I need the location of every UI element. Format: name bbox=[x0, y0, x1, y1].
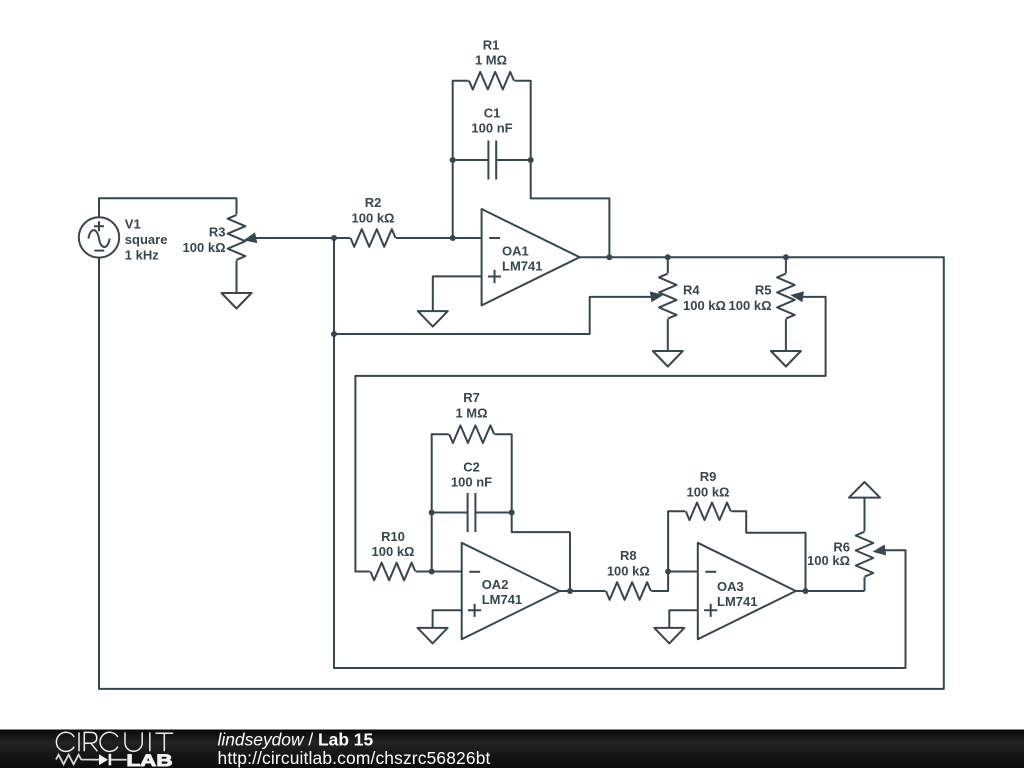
svg-text:LM741: LM741 bbox=[717, 594, 757, 609]
wire R5 top stub bbox=[785, 257, 787, 273]
junction R5 top bbox=[783, 254, 789, 260]
junction OA3 output bbox=[803, 588, 809, 594]
wire R4 top stub bbox=[667, 257, 669, 273]
wire V+ to R6 top bbox=[864, 498, 866, 532]
wire OA3 noninverting input to ground bbox=[669, 610, 698, 628]
svg-text:LM741: LM741 bbox=[482, 592, 522, 607]
ground for R5 bbox=[771, 351, 801, 367]
C2 label bbox=[451, 459, 492, 489]
svg-text:1 MΩ: 1 MΩ bbox=[475, 53, 507, 68]
junction C1 left bbox=[450, 157, 456, 163]
op-amp OA1 bbox=[482, 209, 580, 305]
OA1 label bbox=[502, 244, 542, 274]
CircuitLab logo CIRCUIT bbox=[56, 732, 173, 751]
ground for R4 bbox=[653, 351, 683, 367]
svg-text:R9: R9 bbox=[700, 469, 717, 484]
potentiometer R3 bbox=[228, 215, 258, 260]
wire R3 wiper to node A bbox=[256, 237, 335, 239]
svg-text:R1: R1 bbox=[483, 38, 500, 53]
svg-text:1 MΩ: 1 MΩ bbox=[455, 406, 487, 421]
R8 label bbox=[607, 548, 650, 579]
wire R1 right to feedback right vertical bbox=[515, 81, 610, 258]
wire R8 to OA3 inverting input bbox=[651, 572, 697, 592]
wire R10 to OA2 inverting input bbox=[416, 571, 462, 573]
wire R9 right to OA3 output bbox=[731, 511, 805, 591]
wire OA1 output loop to V1 bbox=[99, 257, 944, 689]
svg-text:OA3: OA3 bbox=[717, 579, 744, 594]
wire feedback left vertical bbox=[453, 81, 469, 238]
capacitor C2 bbox=[432, 493, 512, 532]
svg-text:100 kΩ: 100 kΩ bbox=[372, 544, 415, 559]
R3 label bbox=[183, 225, 226, 256]
svg-text:R7: R7 bbox=[463, 390, 480, 405]
wire feedback2 right drop to OA2 output bbox=[569, 532, 571, 591]
CircuitLab logo resistor-diode symbol bbox=[56, 754, 127, 766]
wire OA2 noninverting input to ground bbox=[433, 610, 462, 628]
svg-text:1 kHz: 1 kHz bbox=[125, 248, 159, 263]
wire R4 bottom to ground bbox=[667, 319, 669, 351]
svg-text:C2: C2 bbox=[463, 459, 480, 474]
svg-text:100 kΩ: 100 kΩ bbox=[183, 240, 226, 255]
R2 label bbox=[352, 195, 395, 226]
junction feedback at output bbox=[606, 254, 612, 260]
resistor R10 bbox=[370, 563, 415, 581]
svg-text:R10: R10 bbox=[381, 529, 405, 544]
svg-text:100 kΩ: 100 kΩ bbox=[607, 564, 650, 579]
potentiometer R5 bbox=[777, 274, 804, 319]
R5 label bbox=[729, 283, 772, 314]
svg-text:OA2: OA2 bbox=[482, 577, 509, 592]
junction C1 right bbox=[528, 157, 534, 163]
ground for OA2 bbox=[418, 628, 448, 644]
svg-text:R3: R3 bbox=[209, 225, 226, 240]
svg-text:100 kΩ: 100 kΩ bbox=[352, 210, 395, 225]
voltage source V1 bbox=[79, 217, 119, 257]
wire node A vertical and bottom bus to R6 wiper bbox=[334, 238, 906, 668]
wire feedback3 left vertical bbox=[668, 511, 685, 571]
wire R5 wiper to R10 bbox=[355, 297, 825, 572]
R7 label bbox=[455, 390, 487, 421]
OA2 label bbox=[482, 577, 522, 607]
wire V1 top to R3 top bbox=[99, 198, 237, 217]
svg-text:LAB: LAB bbox=[127, 751, 173, 768]
potentiometer R6 bbox=[856, 532, 886, 577]
wire node A to R2 bbox=[334, 237, 350, 239]
wire R3 bottom to ground bbox=[236, 260, 238, 293]
ground for OA3 bbox=[654, 628, 684, 644]
junction node A bbox=[331, 235, 337, 241]
wire OA3 output to R6 bbox=[796, 590, 865, 592]
resistor R1 bbox=[469, 72, 514, 90]
wire OA1 noninverting input to ground bbox=[433, 276, 482, 311]
ground for R3 bbox=[222, 293, 252, 309]
svg-text:R4: R4 bbox=[683, 283, 700, 298]
svg-text:R2: R2 bbox=[365, 195, 382, 210]
op-amp OA3 bbox=[698, 543, 796, 639]
junction R2 / feedback bbox=[450, 235, 456, 241]
power supply V+ above R6 bbox=[849, 482, 880, 498]
wire feedback2 left vertical bbox=[432, 434, 449, 571]
junction R10 / feedback2 bbox=[429, 569, 435, 575]
junction node A lower bbox=[331, 331, 337, 337]
R4 label bbox=[683, 283, 726, 314]
V1 label bbox=[125, 217, 168, 263]
R9 label bbox=[687, 469, 730, 500]
R6 label bbox=[807, 540, 850, 568]
capacitor C1 bbox=[453, 141, 531, 180]
junction C2 right bbox=[509, 510, 515, 516]
op-amp OA2 bbox=[462, 543, 560, 639]
junction OA3 inverting bbox=[665, 569, 671, 575]
svg-text:C1: C1 bbox=[484, 106, 501, 121]
wire R5 bottom to ground bbox=[785, 319, 787, 351]
resistor R7 bbox=[449, 425, 494, 443]
svg-text:100 kΩ: 100 kΩ bbox=[807, 553, 850, 568]
wire OA2 output to R8 bbox=[560, 590, 606, 592]
svg-text:R5: R5 bbox=[755, 283, 772, 298]
svg-text:http://circuitlab.com/chszrc56: http://circuitlab.com/chszrc56826bt bbox=[218, 748, 491, 768]
resistor R8 bbox=[606, 582, 651, 600]
R1 label bbox=[475, 38, 507, 68]
resistor R9 bbox=[686, 503, 731, 521]
junction OA2 output bbox=[567, 588, 573, 594]
svg-text:100 kΩ: 100 kΩ bbox=[687, 485, 730, 500]
svg-text:100 kΩ: 100 kΩ bbox=[683, 298, 726, 313]
svg-text:square: square bbox=[125, 232, 168, 247]
ground for OA1 bbox=[418, 311, 448, 327]
OA3 label bbox=[717, 579, 757, 609]
wire R4 wiper to node A lower bbox=[334, 297, 652, 334]
wire R6 bottom to output bbox=[864, 577, 866, 591]
svg-text:LM741: LM741 bbox=[502, 259, 542, 274]
svg-text:100 nF: 100 nF bbox=[471, 121, 512, 136]
svg-text:100 kΩ: 100 kΩ bbox=[729, 298, 772, 313]
wire R7 right to feedback2 right vertical bbox=[495, 434, 570, 532]
svg-text:R8: R8 bbox=[620, 548, 637, 563]
R10 label bbox=[372, 529, 415, 559]
svg-text:V1: V1 bbox=[125, 217, 141, 232]
resistor R2 bbox=[351, 229, 396, 247]
svg-text:100 nF: 100 nF bbox=[451, 475, 492, 490]
potentiometer R4 bbox=[650, 274, 677, 319]
junction R4 top bbox=[665, 254, 671, 260]
wire R2 to OA1 inverting input bbox=[396, 237, 482, 239]
svg-text:lindseydow / Lab 15: lindseydow / Lab 15 bbox=[218, 729, 374, 749]
C1 label bbox=[471, 106, 512, 136]
junction C2 left bbox=[429, 510, 435, 516]
svg-text:OA1: OA1 bbox=[502, 244, 529, 259]
